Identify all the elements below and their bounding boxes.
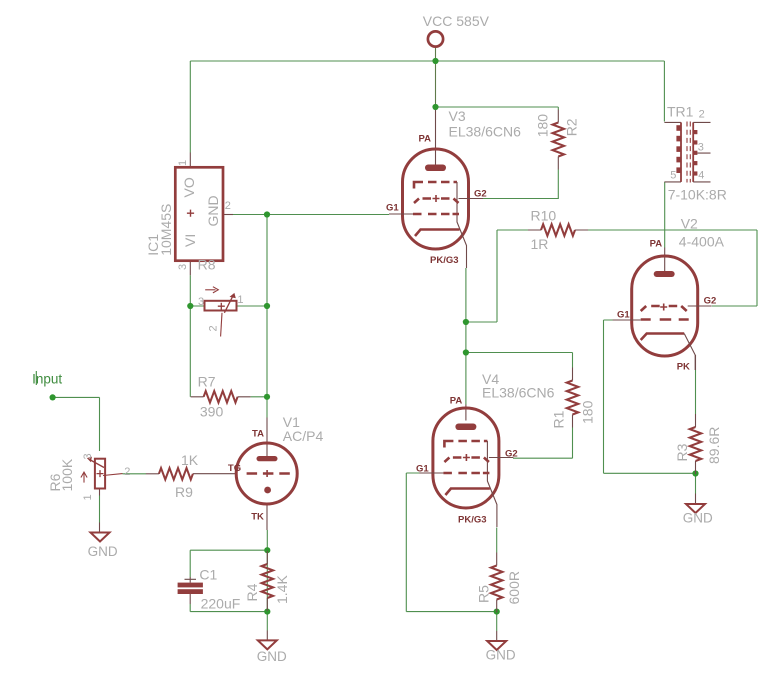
svg-text:3: 3: [82, 453, 94, 459]
svg-text:R10: R10: [531, 208, 557, 224]
svg-text:7-10K:8R: 7-10K:8R: [668, 187, 727, 203]
svg-text:PK/G3: PK/G3: [430, 255, 459, 266]
svg-text:G1: G1: [416, 464, 429, 475]
svg-text:R1: R1: [551, 410, 567, 428]
svg-text:VO: VO: [181, 177, 197, 197]
svg-text:G2: G2: [704, 296, 717, 307]
svg-text:R9: R9: [175, 484, 193, 500]
svg-text:R3: R3: [674, 443, 690, 461]
svg-text:GND: GND: [486, 648, 516, 663]
svg-text:R5: R5: [475, 585, 491, 603]
svg-text:PA: PA: [419, 134, 432, 145]
svg-text:PK/G3: PK/G3: [458, 515, 487, 526]
svg-text:89.6R: 89.6R: [706, 427, 722, 464]
svg-text:2: 2: [208, 325, 220, 331]
svg-text:G1: G1: [617, 310, 630, 321]
svg-text:R2: R2: [563, 118, 579, 136]
svg-text:AC/P4: AC/P4: [283, 428, 324, 444]
svg-text:GND: GND: [257, 649, 287, 664]
svg-text:R7: R7: [198, 374, 216, 390]
svg-text:4-400A: 4-400A: [679, 234, 725, 250]
svg-text:1R: 1R: [531, 236, 549, 252]
svg-text:2: 2: [124, 466, 130, 478]
svg-text:EL38/6CN6: EL38/6CN6: [482, 385, 555, 401]
svg-text:TR1: TR1: [667, 104, 694, 120]
svg-text:100K: 100K: [59, 458, 75, 491]
svg-text:1.4K: 1.4K: [274, 575, 290, 604]
svg-text:5: 5: [670, 170, 676, 182]
svg-text:G1: G1: [386, 203, 399, 214]
svg-text:GND: GND: [88, 544, 118, 559]
svg-text:2: 2: [225, 200, 231, 212]
svg-text:PK: PK: [677, 362, 690, 373]
svg-text:1: 1: [82, 494, 94, 500]
svg-text:C1: C1: [199, 567, 217, 583]
svg-text:3: 3: [698, 142, 704, 154]
svg-text:G2: G2: [505, 449, 518, 460]
svg-text:1K: 1K: [181, 452, 199, 468]
svg-text:V2: V2: [681, 216, 698, 232]
svg-text:TK: TK: [251, 512, 264, 523]
svg-text:3: 3: [198, 296, 204, 308]
svg-text:GND: GND: [205, 195, 221, 226]
svg-text:R4: R4: [244, 583, 260, 601]
svg-text:PA: PA: [650, 239, 663, 250]
svg-text:G2: G2: [474, 189, 487, 200]
svg-text:220uF: 220uF: [201, 596, 241, 612]
svg-text:GND: GND: [683, 511, 713, 526]
svg-text:VI: VI: [182, 234, 198, 247]
svg-text:180: 180: [580, 400, 596, 424]
svg-text:390: 390: [200, 404, 224, 420]
svg-text:2: 2: [699, 109, 705, 121]
svg-text:EL38/6CN6: EL38/6CN6: [449, 124, 522, 140]
svg-text:1: 1: [237, 294, 243, 306]
svg-text:TA: TA: [252, 429, 264, 440]
svg-text:TG: TG: [228, 463, 241, 474]
svg-text:3: 3: [177, 264, 189, 270]
svg-text:10M45S: 10M45S: [158, 204, 174, 256]
svg-text:PA: PA: [450, 396, 463, 407]
svg-text:VCC 585V: VCC 585V: [423, 13, 490, 29]
svg-text:4: 4: [698, 170, 704, 182]
svg-text:1: 1: [177, 160, 189, 166]
svg-text:R8: R8: [198, 257, 216, 273]
svg-text:180: 180: [534, 114, 550, 138]
svg-text:V3: V3: [449, 108, 466, 124]
svg-text:600R: 600R: [506, 571, 522, 604]
